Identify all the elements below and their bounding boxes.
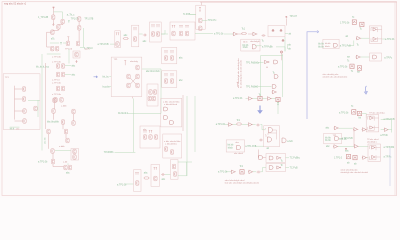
svg-text:a.TP1.0b: a.TP1.0b [52, 82, 62, 84]
svg-text:a.bbb: a.bbb [59, 146, 65, 148]
svg-text:a.bbb: a.bbb [61, 105, 67, 107]
svg-text:bb_bc: bb_bc [103, 76, 110, 78]
svg-text:a.TP.Pc: a.TP.Pc [384, 156, 393, 158]
svg-text:a.TP1.PcB: a.TP1.PcB [98, 44, 109, 46]
svg-text:1_TP1.2B: 1_TP1.2B [38, 17, 49, 19]
svg-text:a.TP1.0b: a.TP1.0b [385, 39, 395, 41]
svg-text:bb.bb: bb.bb [325, 140, 331, 142]
svg-text:a TP1.0b: a TP1.0b [214, 34, 224, 36]
svg-text:TC.PcB: TC.PcB [290, 168, 298, 170]
svg-text:bbc.bbcbbb: bbc.bbcbbb [47, 121, 60, 123]
svg-text:a.TP1.0b: a.TP1.0b [216, 124, 226, 126]
svg-text:TPcPcBb: TPcPcBb [104, 152, 114, 154]
svg-text:TP.abc abcdefg c: TP.abc abcdefg c [369, 113, 385, 115]
svg-text:bb.bb: bb.bb [318, 46, 324, 48]
svg-text:abcdefghi: abcdefghi [250, 41, 260, 43]
svg-text:TP: TP [347, 57, 350, 59]
svg-text:bbcb: bbcb [325, 46, 331, 48]
svg-text:a.TP1.0b: a.TP1.0b [339, 112, 349, 114]
svg-text:a TP1.0b: a TP1.0b [52, 94, 62, 96]
svg-text:bcd abc abcdefgh abcdefghij ab: bcd abc abcdefgh abcdefghij abcde [225, 183, 260, 185]
svg-text:bb.bbcb.b: bb.bbcb.b [118, 113, 129, 115]
svg-text:TP1.0b: TP1.0b [339, 139, 347, 141]
svg-text:a TP1.0b: a TP1.0b [233, 98, 243, 100]
svg-text:a.TP.PcBb: a.TP.PcBb [384, 147, 395, 149]
svg-text:a.TP1.0b: a.TP1.0b [38, 161, 48, 163]
svg-text:a bbcdd bbc: a bbcdd bbc [165, 143, 178, 145]
svg-text:wsg abc 02 abcde r1: wsg abc 02 abcde r1 [4, 3, 27, 6]
svg-text:bb_bc.b_bcc: bb_bc.b_bcc [36, 66, 50, 68]
svg-text:abcdef abc.abcde(abcde): abcdef abc.abcde(abcde) [323, 77, 348, 79]
svg-text:a_Tb_c: a_Tb_c [67, 15, 76, 17]
svg-text:abcdefgh c: abcdefgh c [367, 141, 377, 143]
svg-text:bc abcdefg abc abcde abcde: bc abcdefg abc abcde abcde [240, 59, 242, 88]
svg-text:TP1.07c: TP1.07c [208, 20, 217, 22]
svg-text:abc.bb: abc.bb [45, 137, 47, 144]
svg-text:TP1.07B: TP1.07B [84, 18, 93, 20]
svg-text:a.TP1.0b: a.TP1.0b [117, 185, 127, 187]
svg-text:bb.b: bb.b [10, 129, 15, 131]
svg-text:a.TP1.0b: a.TP1.0b [338, 66, 348, 68]
svg-text:1.TP1.0b: 1.TP1.0b [340, 22, 350, 24]
svg-text:a.TP.Pc: a.TP.Pc [384, 57, 393, 59]
svg-text:a.TP1.0: a.TP1.0 [52, 79, 60, 81]
svg-text:Tc.PcB: Tc.PcB [183, 14, 191, 16]
svg-text:bbcb: bbcb [228, 147, 234, 149]
svg-text:a.TP.0b: a.TP.0b [380, 135, 388, 137]
svg-text:abc b: abc b [85, 48, 91, 50]
svg-text:1.TP1.0: 1.TP1.0 [334, 157, 343, 159]
svg-text:abc abcd: abc abcd [234, 153, 244, 155]
svg-text:TC.PcBbc: TC.PcBbc [290, 158, 301, 160]
svg-text:a.bcb: a.bcb [287, 141, 293, 143]
svg-text:a TP1.0b: a TP1.0b [52, 56, 62, 58]
svg-text:abcdefgh abc abcdef abcdef: abcdefgh abc abcdef abcdef [341, 172, 369, 174]
svg-text:a TP1.0b: a TP1.0b [52, 61, 62, 63]
svg-text:bbcb: bbcb [243, 47, 249, 49]
svg-text:a bbcdd bbcb: a bbcdd bbcb [164, 104, 178, 106]
svg-text:bb.bb: bb.bb [228, 145, 234, 147]
svg-text:abcdefg: abcdefg [130, 61, 139, 63]
svg-text:TP1.07: TP1.07 [290, 16, 298, 18]
svg-text:TP1.07: TP1.07 [71, 18, 79, 20]
svg-text:a.TP1.PcB: a.TP1.PcB [245, 146, 256, 148]
svg-text:a.TP.PcBb: a.TP.PcBb [262, 46, 273, 48]
svg-text:TP: TP [357, 72, 360, 74]
svg-text:abc.bbc.bbcb: abc.bbc.bbcb [146, 71, 160, 73]
